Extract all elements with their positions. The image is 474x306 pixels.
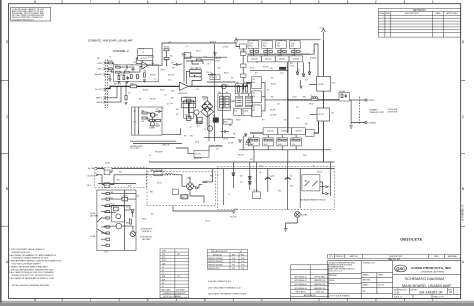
resistor R88	[181, 195, 188, 199]
dashed breaker box	[95, 167, 147, 187]
svg-text:MATERIAL: MATERIAL	[329, 274, 337, 277]
svg-text:D29: D29	[162, 279, 165, 281]
svg-text:D12: D12	[297, 70, 300, 72]
svg-text:MJE: MJE	[252, 82, 255, 84]
wire prot vert	[134, 107, 136, 135]
svg-text:1: 1	[432, 0, 434, 4]
wire -V to psu rail b	[287, 150, 289, 162]
svg-text:D21: D21	[240, 182, 243, 184]
supply rail lower	[213, 168, 335, 170]
svg-text:1 OF 2: 1 OF 2	[86, 185, 91, 187]
resistor R44	[190, 70, 202, 73]
svg-text:C50: C50	[272, 176, 275, 178]
svg-text:MJ15025: MJ15025	[296, 131, 302, 133]
resistor R20	[164, 49, 169, 51]
svg-text:.33: .33	[278, 138, 280, 140]
switch SW1 box	[104, 183, 110, 188]
diode D28	[131, 210, 134, 217]
wire bridge top	[189, 177, 191, 183]
svg-text:ONLY FOR CONTINUED SAFETY: ONLY FOR CONTINUED SAFETY	[12, 263, 42, 266]
australian protection label	[300, 198, 326, 201]
+V flag output	[322, 28, 326, 32]
transistor Q104 box	[248, 138, 259, 146]
svg-text:C15: C15	[207, 64, 210, 66]
resistor box RB4	[245, 96, 252, 106]
svg-text:R40: R40	[190, 57, 193, 59]
svg-text:R64: R64	[219, 92, 222, 94]
svg-text:L2 2uH: L2 2uH	[292, 97, 296, 99]
svg-text:CHIP BOARD: CHIP BOARD	[314, 275, 326, 278]
svg-text:T1: T1	[162, 286, 164, 288]
jack plate connector box	[97, 190, 136, 251]
transistor Q14 box	[289, 41, 300, 49]
central VAS vertical wire	[213, 44, 215, 141]
logo/name separator	[393, 273, 461, 275]
terminal row 9	[101, 244, 109, 246]
svg-text:R111: R111	[290, 186, 293, 188]
ground R39	[124, 102, 127, 104]
transistor Q11 box	[248, 41, 259, 49]
+V supply rail long	[149, 161, 335, 163]
svg-text:BRN: BRN	[111, 192, 114, 194]
capacitor C11	[174, 63, 181, 65]
svg-text:Q22: Q22	[151, 214, 154, 216]
transistor Q23	[116, 214, 121, 219]
svg-text:Q110: Q110	[292, 144, 296, 146]
transistor Q4	[222, 84, 227, 89]
svg-text:Q104: Q104	[250, 144, 254, 146]
svg-text:CH 1 OUT: CH 1 OUT	[95, 89, 102, 91]
resistor R43	[197, 59, 202, 61]
svg-text:SCHEMATIC, MAIN BOARD, USA 600: SCHEMATIC, MAIN BOARD, USA 600 AMP	[88, 40, 133, 43]
svg-text:C32: C32	[216, 149, 219, 151]
svg-text:RV2: RV2	[162, 257, 165, 259]
svg-text:C24 .022: C24 .022	[223, 139, 229, 141]
output heavy line	[288, 99, 339, 101]
svg-text:R9: R9	[134, 62, 136, 64]
svg-text:R35: R35	[139, 99, 142, 101]
wire cluster bottom	[204, 136, 235, 138]
diode drop 2	[303, 62, 305, 74]
wire L2 to bridge	[173, 175, 187, 186]
transistor Q9	[151, 113, 155, 117]
svg-text:R23: R23	[172, 68, 175, 70]
input labels tiny	[108, 61, 123, 76]
resistor R39	[125, 96, 127, 100]
svg-text:INSULATION BLOCK: INSULATION BLOCK	[211, 250, 228, 253]
svg-text:10-2-95: 10-2-95	[378, 285, 384, 287]
revisions table	[378, 9, 460, 37]
wire drivers to out bus	[265, 99, 288, 101]
notes box top-left	[11, 7, 51, 21]
bottom cell connecting verticals	[254, 135, 296, 150]
svg-text:R92: R92	[271, 97, 274, 99]
svg-text:DESCRIPTION: DESCRIPTION	[405, 13, 419, 15]
svg-text:C58: C58	[162, 276, 165, 278]
central vertical wire 2	[222, 85, 224, 137]
svg-text:C35 .01: C35 .01	[157, 183, 162, 185]
driver labels	[252, 79, 255, 112]
wire coil right	[209, 146, 223, 150]
svg-text:4: 4	[261, 0, 263, 4]
svg-text:OUTPUT: OUTPUT	[368, 100, 375, 102]
svg-text:C3: C3	[131, 65, 133, 67]
ground left bottom	[238, 140, 241, 142]
svg-text:J4: J4	[162, 273, 164, 275]
wire left bottom	[242, 136, 244, 150]
svg-text:MJ15025: MJ15025	[267, 131, 273, 133]
svg-text:MJE: MJE	[234, 111, 237, 113]
terminal row 6	[101, 226, 109, 228]
svg-text:C56 .01: C56 .01	[205, 221, 210, 223]
svg-text:QSC: QSC	[396, 266, 405, 271]
svg-text:MJ15024: MJ15024	[265, 59, 271, 61]
svg-text:.33: .33	[292, 55, 294, 57]
svg-text:Q24: Q24	[162, 263, 165, 265]
svg-text:C51: C51	[290, 176, 293, 178]
svg-text:3: 3	[318, 0, 320, 4]
svg-text:C8: C8	[154, 79, 156, 81]
wire fan	[122, 226, 133, 231]
resistor R46	[182, 97, 196, 102]
resistor R38 series	[130, 85, 136, 88]
svg-text:C52 1K: C52 1K	[253, 190, 258, 192]
wire to op-amp	[129, 67, 142, 73]
svg-text:AUDIO PRODUCTS, INC.: AUDIO PRODUCTS, INC.	[411, 266, 452, 270]
svg-text:WP-148004-00: WP-148004-00	[295, 284, 307, 286]
svg-text:.33: .33	[264, 138, 266, 140]
op-amp U1	[142, 61, 148, 69]
C7 R7 divider	[138, 54, 153, 56]
svg-text:2. ALL RESISTORS MARKED "FP" A: 2. ALL RESISTORS MARKED "FP" ARE FLAMEPR…	[9, 254, 57, 257]
info text top row	[251, 59, 299, 61]
svg-text:7. ALL RESISTOR VALUES ARE IN: 7. ALL RESISTOR VALUES ARE IN OHMS 5%, 1…	[9, 277, 54, 280]
last used / not used table	[160, 249, 189, 298]
resistor RB2 inner	[246, 86, 248, 93]
svg-text:R98: R98	[305, 124, 308, 126]
label noise sprinkle	[97, 42, 335, 254]
svg-text:R71: R71	[255, 73, 258, 75]
svg-text:15030: 15030	[244, 111, 248, 113]
svg-text:R58: R58	[185, 97, 188, 99]
svg-text:OVER CURRENT: OVER CURRENT	[149, 126, 160, 128]
svg-text:DESCRIPTION: DESCRIPTION	[389, 256, 403, 258]
wire U2 fb	[192, 75, 201, 86]
ground U1	[143, 80, 146, 82]
transistor Q10	[150, 113, 154, 117]
svg-text:R13: R13	[232, 254, 235, 256]
diode D15	[296, 72, 299, 74]
diode D16	[302, 74, 305, 76]
svg-text:DRAWN: DRAWN	[362, 274, 369, 277]
output dashed boundary	[359, 97, 361, 124]
capacitor C15	[190, 74, 202, 77]
svg-text:B: B	[462, 187, 464, 191]
svg-text:HM6338 (100V/60): HM6338 (100V/60)	[208, 265, 223, 267]
svg-text:K1 COIL: K1 COIL	[195, 154, 201, 156]
resistor box RB2	[244, 84, 251, 94]
feedback network box C7 R7	[138, 49, 153, 61]
AC neut stub	[96, 174, 99, 176]
application block	[291, 265, 329, 299]
wire stub to box	[104, 206, 112, 208]
input series resistor top	[108, 62, 112, 64]
svg-text:R2 10K: R2 10K	[108, 71, 113, 73]
wire upper mid	[192, 60, 199, 64]
transistor Q24	[116, 223, 122, 229]
resistor R51b	[142, 117, 147, 119]
wire +V flag down to rail	[322, 32, 324, 40]
terminal row wires	[109, 194, 136, 211]
middle col rows	[361, 272, 392, 274]
wire stub to q	[104, 212, 116, 214]
diamond VI limiter	[202, 101, 213, 113]
svg-text:6: 6	[147, 0, 149, 4]
svg-text:TP1: TP1	[177, 254, 180, 256]
transistor Q7	[207, 126, 212, 131]
diode D6	[204, 103, 206, 105]
thermal switch symbol	[305, 181, 318, 186]
scanner bottom gray strip	[0, 302, 474, 306]
svg-text:MODEL NO: MODEL NO	[213, 254, 223, 256]
svg-text:C53 .1: C53 .1	[303, 155, 307, 157]
wire prot to cluster	[162, 128, 181, 135]
ground shield symbol	[108, 79, 111, 81]
junction dot R44	[194, 75, 195, 76]
capacitor C4	[126, 76, 129, 79]
driver wire	[236, 43, 240, 47]
svg-text:L2: L2	[150, 177, 152, 179]
wire bus to K1	[310, 44, 318, 76]
diode D20	[248, 177, 251, 180]
svg-text:R1 10K: R1 10K	[108, 61, 113, 63]
wire prot inner 3	[147, 118, 150, 121]
svg-text:RV1: RV1	[184, 136, 187, 138]
terminal row 4	[101, 211, 109, 213]
rail drop x300.2	[299, 169, 301, 209]
label box R45	[210, 75, 220, 80]
svg-text:C1: C1	[109, 57, 111, 59]
emitter bus top	[248, 53, 311, 55]
BR1 label box	[182, 195, 187, 199]
svg-text:U3: U3	[113, 204, 115, 206]
left col rows	[328, 273, 362, 275]
diode drop 3	[309, 62, 311, 72]
info small box right	[306, 130, 315, 137]
svg-text:MJ15025: MJ15025	[282, 131, 288, 133]
resistor R39 to gnd	[125, 86, 127, 95]
resistor ladder left R78	[241, 74, 247, 77]
wire line rail	[98, 169, 213, 173]
svg-text:R53: R53	[156, 124, 159, 126]
svg-text:R68: R68	[229, 125, 232, 127]
svg-text:TP2: TP2	[162, 254, 165, 256]
svg-text:CHECKED: CHECKED	[362, 280, 371, 282]
svg-text:.33: .33	[250, 55, 252, 57]
transistor Q13 box	[276, 41, 287, 49]
ground output	[349, 126, 352, 129]
transistor Q12 box	[262, 41, 273, 49]
svg-text:R41 1K: R41 1K	[196, 51, 201, 53]
svg-text:R96: R96	[303, 97, 306, 99]
svg-text:R75: R75	[290, 63, 293, 65]
wire driver3	[262, 100, 266, 111]
resistor pairs bottom cells	[250, 139, 301, 141]
gain network wires	[106, 86, 117, 97]
svg-text:GND SHLD: GND SHLD	[94, 74, 103, 76]
rail drop x267.8	[267, 169, 269, 193]
svg-text:5. USE QSC REPLACEMENT TRANSIS: 5. USE QSC REPLACEMENT TRANSISTORS ONLY	[9, 268, 54, 271]
svg-text:7: 7	[90, 0, 92, 4]
protection notes text	[130, 144, 170, 150]
svg-text:R57: R57	[197, 126, 200, 128]
driver group left top	[240, 44, 247, 49]
capacitor C36	[172, 189, 178, 195]
svg-text:NOTES: UNLESS OTHERWISE SPECIF: NOTES: UNLESS OTHERWISE SPECIFIED	[12, 285, 50, 287]
svg-text:D: D	[395, 291, 397, 295]
svg-text:R70 47K: R70 47K	[240, 51, 245, 53]
diode D21	[248, 181, 251, 184]
fan arrow	[131, 232, 135, 236]
vertical bus right of connector	[123, 190, 125, 250]
svg-text:R103: R103	[249, 46, 253, 48]
top cell connecting verticals	[253, 40, 294, 56]
terminal row 7	[101, 232, 109, 234]
diode drop 1	[297, 62, 299, 72]
svg-text:R49: R49	[142, 121, 145, 123]
wire + input to front-end	[106, 63, 114, 65]
wire - input to front-end	[106, 69, 114, 72]
driver info box Q19	[252, 77, 262, 89]
svg-text:MJ15024: MJ15024	[279, 59, 285, 61]
svg-text:R20 10K: R20 10K	[164, 47, 169, 49]
wire K1 to output node	[322, 91, 324, 108]
svg-text:SW1: SW1	[119, 172, 122, 174]
svg-text:7: 7	[90, 298, 92, 302]
info text bottom row	[267, 131, 302, 133]
svg-text:Q19: Q19	[252, 79, 255, 81]
svg-text:COSTA MESA, CALIFORNIA: COSTA MESA, CALIFORNIA	[420, 270, 444, 273]
svg-text:L1: L1	[311, 94, 313, 96]
transistor Q108 box	[277, 138, 288, 146]
svg-text:R7 22.1K: R7 22.1K	[141, 58, 147, 60]
svg-text:R5: R5	[125, 70, 127, 72]
wire h mid cluster	[231, 100, 236, 102]
svg-text:R87 10K FP: R87 10K FP	[155, 152, 163, 154]
op-amp U2 output heavy wire	[189, 85, 224, 87]
svg-text:1. FOR COMPONENT VALUE, REFER: 1. FOR COMPONENT VALUE, REFER TO	[9, 248, 46, 251]
svg-text:HM6138 (US): HM6138 (US)	[314, 280, 325, 282]
svg-text:1W FP: 1W FP	[216, 61, 220, 63]
regulator wire down	[173, 206, 234, 211]
wire mid connect	[201, 59, 214, 61]
svg-text:RV3: RV3	[150, 192, 153, 194]
svg-text:WP-148004-70: WP-148004-70	[295, 276, 307, 278]
svg-text:.33: .33	[250, 138, 252, 140]
wire color labels	[111, 192, 128, 206]
svg-text:C11: C11	[171, 63, 174, 65]
resistor R100 across L1	[311, 99, 318, 101]
svg-text:4: 4	[261, 298, 263, 302]
svg-text:RV2: RV2	[190, 136, 193, 138]
svg-text:NEXT ASSY: NEXT ASSY	[296, 291, 307, 294]
rail drop x233.4	[232, 162, 234, 188]
module text1	[140, 228, 152, 241]
front-end network box	[114, 65, 159, 82]
diode D8	[204, 108, 206, 110]
svg-text:HM6138 (JPN): HM6138 (JPN)	[208, 268, 220, 270]
output node vertical	[287, 62, 289, 133]
svg-text:+ INPUT: + INPUT	[96, 63, 102, 65]
R64 hatch	[220, 99, 224, 105]
title block	[328, 261, 461, 299]
svg-text:R81: R81	[233, 134, 236, 136]
svg-text:C33 10P: C33 10P	[228, 143, 233, 145]
svg-text:MJE: MJE	[252, 110, 255, 112]
scanner left dark edge	[0, 0, 2, 306]
svg-text:Q106: Q106	[264, 144, 268, 146]
refdes labels front-end	[114, 49, 154, 86]
svg-text:R7 22.1K: R7 22.1K	[148, 57, 154, 59]
varistor RV2	[190, 101, 194, 119]
wire x162 drop	[161, 43, 163, 66]
svg-text:WHT: WHT	[128, 186, 131, 188]
resistor R58	[187, 99, 191, 103]
resistor ladder left R76	[241, 52, 247, 55]
svg-text:Q105: Q105	[263, 43, 267, 45]
wire top band2	[166, 60, 168, 66]
svg-text:GND BRIDGE RECT: GND BRIDGE RECT	[130, 146, 143, 148]
capacitor C51	[285, 175, 290, 180]
svg-text:R91 2.2: R91 2.2	[271, 84, 276, 86]
wire fe verticals	[119, 73, 124, 76]
svg-text:R63 47: R63 47	[224, 73, 229, 75]
bottom number row	[393, 293, 461, 295]
svg-text:R69 10: R69 10	[236, 120, 241, 122]
zone letters left	[6, 40, 9, 264]
transistor Q1	[203, 104, 208, 109]
varistor RV1	[184, 101, 189, 119]
zobel C	[345, 94, 348, 98]
transistor labels top row	[249, 43, 294, 48]
svg-text:QSC AUDIO PRODUCTS: QSC AUDIO PRODUCTS	[12, 18, 34, 21]
terminal row 1	[101, 193, 109, 195]
wire inside box lower	[120, 71, 124, 73]
dark component block	[279, 67, 286, 70]
resistor RB1 inner	[237, 86, 239, 93]
svg-text:2 OF 2: 2 OF 2	[104, 252, 108, 254]
protection inner divider	[138, 107, 140, 135]
resistor R40 box	[184, 52, 191, 58]
svg-text:R14 10K: R14 10K	[150, 75, 155, 77]
op-amp U1 output wire	[148, 64, 162, 66]
svg-text:REV: REV	[386, 13, 391, 15]
svg-text:200W 8 OHM: 200W 8 OHM	[388, 111, 398, 113]
wire thermal to J2	[320, 182, 325, 194]
svg-text:.33: .33	[264, 55, 266, 57]
QSC logo	[395, 265, 407, 272]
+15V flag	[182, 55, 186, 58]
junction circle BR1 out	[196, 187, 198, 189]
ground wire jack plate	[98, 183, 136, 185]
resistor R86	[129, 219, 131, 224]
bottom transistor info box row	[263, 128, 305, 135]
svg-text:750: 750	[232, 268, 235, 270]
sheet outer bottom edge line	[0, 300, 474, 302]
svg-text:C16 .01: C16 .01	[207, 72, 212, 74]
svg-text:D10: D10	[231, 78, 234, 80]
svg-text:R75: R75	[308, 63, 311, 65]
